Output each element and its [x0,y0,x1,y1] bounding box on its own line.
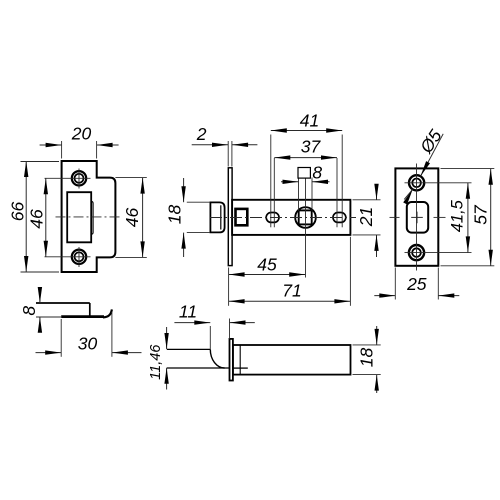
bolt top edge [167,348,211,350]
latch faceplate side view [228,168,232,266]
dimension 8 (view4) [39,289,41,304]
strike side right edge [89,303,91,316]
strike side extension [36,316,61,318]
svg-text:2: 2 [196,124,207,144]
svg-text:11: 11 [179,302,197,322]
centerline bottom hole vertical [78,247,80,267]
faceplate (view5) [230,339,233,381]
screw slot right [333,213,346,223]
dimension square 8 [281,181,299,183]
svg-text:46: 46 [26,209,46,229]
svg-text:66: 66 [8,202,28,222]
diameter 5 leader [421,134,444,177]
strike side plate thick [61,315,104,318]
dimension 66 [25,161,27,272]
strike plate front view outline [62,161,116,272]
extension lines tab edges [115,177,146,179]
spindle circle [295,207,316,228]
latch body (view5) [233,345,351,375]
svg-text:57: 57 [470,204,490,225]
screw hole top (view1) [72,171,86,185]
slot extension lines [270,135,272,228]
latch opening inner tab [91,201,93,234]
bolt bottom edge [167,367,230,369]
horizontal centerline view2 [210,217,356,219]
svg-text:11,46: 11,46 [148,344,164,380]
latch body [232,200,350,235]
latch bolt head inner edge [220,205,222,229]
middle centerline view1 [56,216,121,218]
dimension 18 (view5) [376,326,378,345]
strike side lip curl [103,309,112,317]
svg-text:8: 8 [312,163,322,183]
bolt bevel curve [210,349,224,368]
vertical centerline view3 [416,164,418,271]
dimension 2 [227,141,229,167]
centerline top hole horizontal [45,177,91,179]
body inner line horizontal [233,367,248,369]
spindle square hole [299,210,312,224]
latch bolt head [210,202,224,232]
strike side top edge [36,302,90,304]
dimension 46 right [142,178,144,258]
dimension 41,5 [467,183,469,253]
horizontal centerline view3 mid [390,216,400,218]
faceplate latch hole [407,202,428,233]
svg-text:41,5: 41,5 [448,199,466,232]
svg-text:71: 71 [282,281,301,301]
svg-text:46: 46 [122,208,142,228]
dimension 25 [374,295,395,297]
bolt guide box [236,209,248,225]
screw hole bottom (view1) [72,250,86,264]
dimension 11 [174,322,210,324]
dimension 45 [229,274,306,276]
square hole extension lines [298,178,300,211]
vertical centerline spindle [305,178,307,278]
body inner line vertical [239,345,241,375]
svg-text:37: 37 [301,137,322,157]
svg-text:8: 8 [19,306,39,316]
hole centerlines / extension lines [405,182,472,184]
dimension 37 [274,157,337,159]
dimension 41 [271,130,342,132]
strike plate latch opening [67,192,91,242]
faceplate screw hole bottom [409,245,424,260]
dimension 11,46 [166,327,168,349]
dimension 18 (view2) [183,178,185,202]
centerline bottom hole horizontal [45,256,91,258]
faceplate screw hole top [409,175,424,190]
svg-text:30: 30 [78,333,98,353]
svg-text:18: 18 [357,348,377,368]
faceplate front outline [395,168,438,265]
dimension 46 left [45,178,47,256]
dimension 20 [40,144,62,146]
dimension 21 [376,185,378,200]
dimension 71 [229,300,351,302]
svg-text:21: 21 [356,207,376,227]
latch hole cross [411,216,423,218]
svg-text:45: 45 [257,255,277,275]
centerline top hole vertical [78,169,80,189]
svg-text:20: 20 [71,124,92,144]
dimension 57 [490,169,492,266]
svg-text:41: 41 [300,110,319,130]
screw slot left [266,213,279,223]
svg-text:18: 18 [164,205,184,225]
extension lines 45/71 [228,268,230,306]
svg-text:25: 25 [406,274,427,294]
dimension 30 [36,352,62,354]
